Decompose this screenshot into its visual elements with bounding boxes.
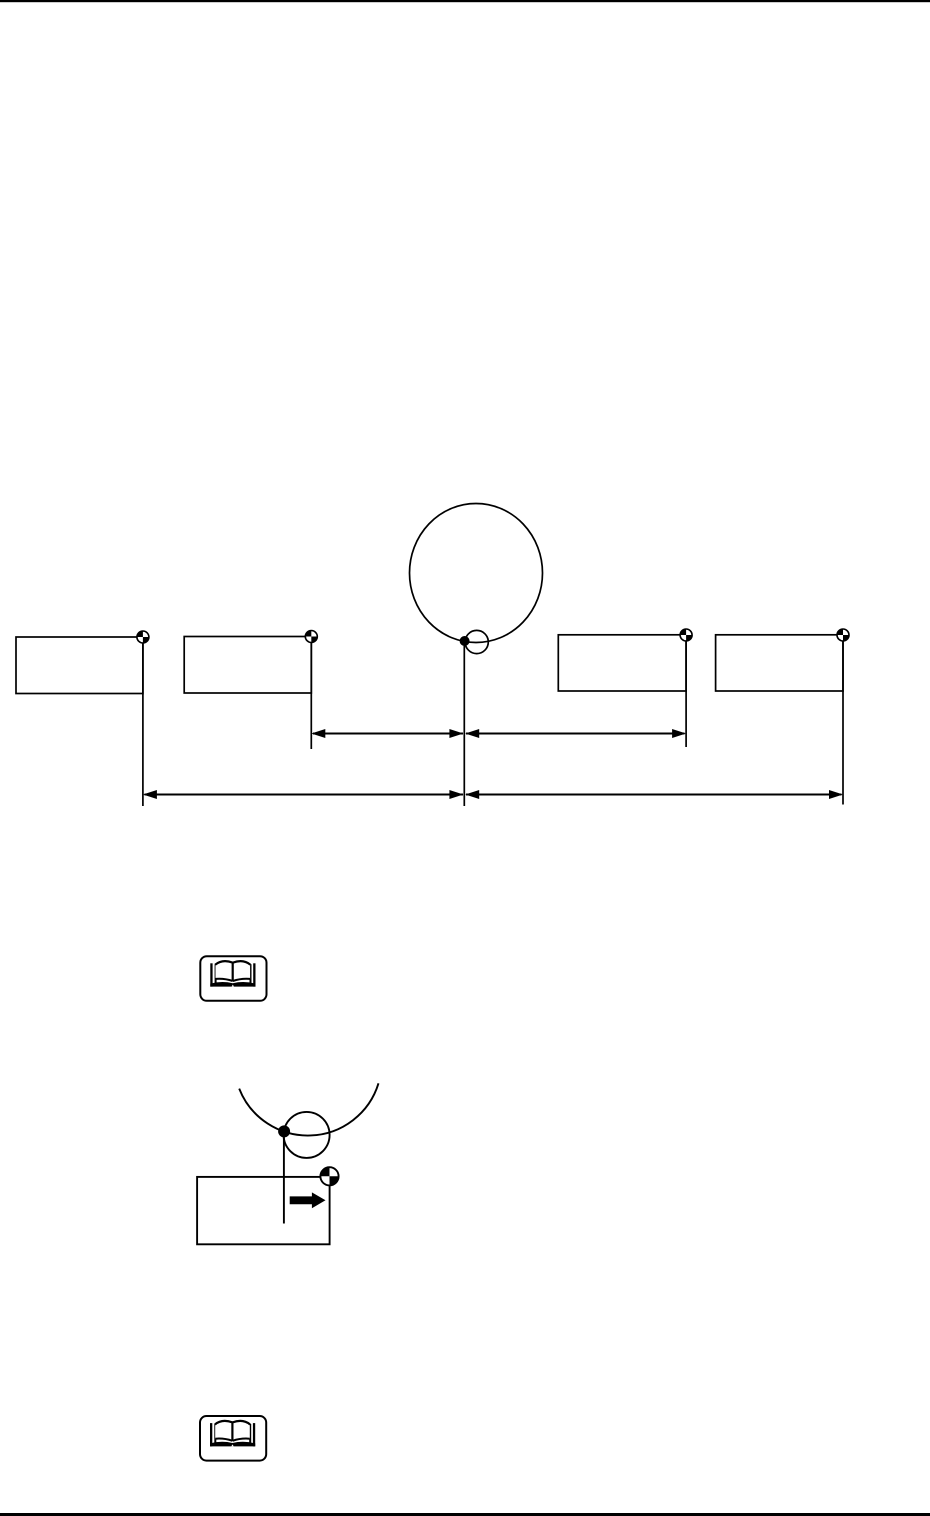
dimension arrow row1 right segment	[465, 729, 686, 738]
approach arc (bottom of circular path)	[239, 1083, 378, 1135]
dimension arrow row2 left segment	[143, 790, 464, 799]
extension line 4	[842, 635, 844, 805]
start point dot small diagram	[278, 1125, 290, 1137]
workpiece rectangle 3	[558, 635, 686, 691]
workpiece rectangle small diagram	[197, 1177, 330, 1244]
top header rule	[0, 0, 930, 2]
reference book icon 1	[200, 956, 266, 1001]
dimension arrow row1 left segment	[311, 729, 463, 738]
reference position symbol 4	[837, 629, 849, 641]
extension line 3	[685, 635, 687, 747]
tool circle (cutter)	[465, 630, 488, 653]
reference book icon 2	[200, 1416, 266, 1461]
reference position symbol 2	[305, 631, 317, 643]
tool path circle (full-circle cutting path)	[410, 504, 543, 643]
block arrow (feed direction)	[290, 1192, 326, 1208]
reference position symbol 1	[137, 631, 149, 643]
tool circle small diagram	[284, 1112, 330, 1158]
plunge line	[283, 1131, 285, 1223]
reference position symbol 5	[320, 1167, 338, 1185]
start point dot	[460, 636, 470, 646]
center vertical line	[463, 641, 465, 806]
bottom footer rule	[0, 1513, 930, 1516]
reference position symbol 3	[680, 629, 692, 641]
workpiece rectangle 2	[184, 637, 311, 694]
workpiece rectangle 1	[16, 637, 143, 694]
extension line 1	[142, 637, 144, 806]
workpiece rectangle 4	[716, 635, 843, 691]
dimension arrow row2 right segment	[465, 790, 843, 799]
extension line 2	[310, 637, 312, 750]
